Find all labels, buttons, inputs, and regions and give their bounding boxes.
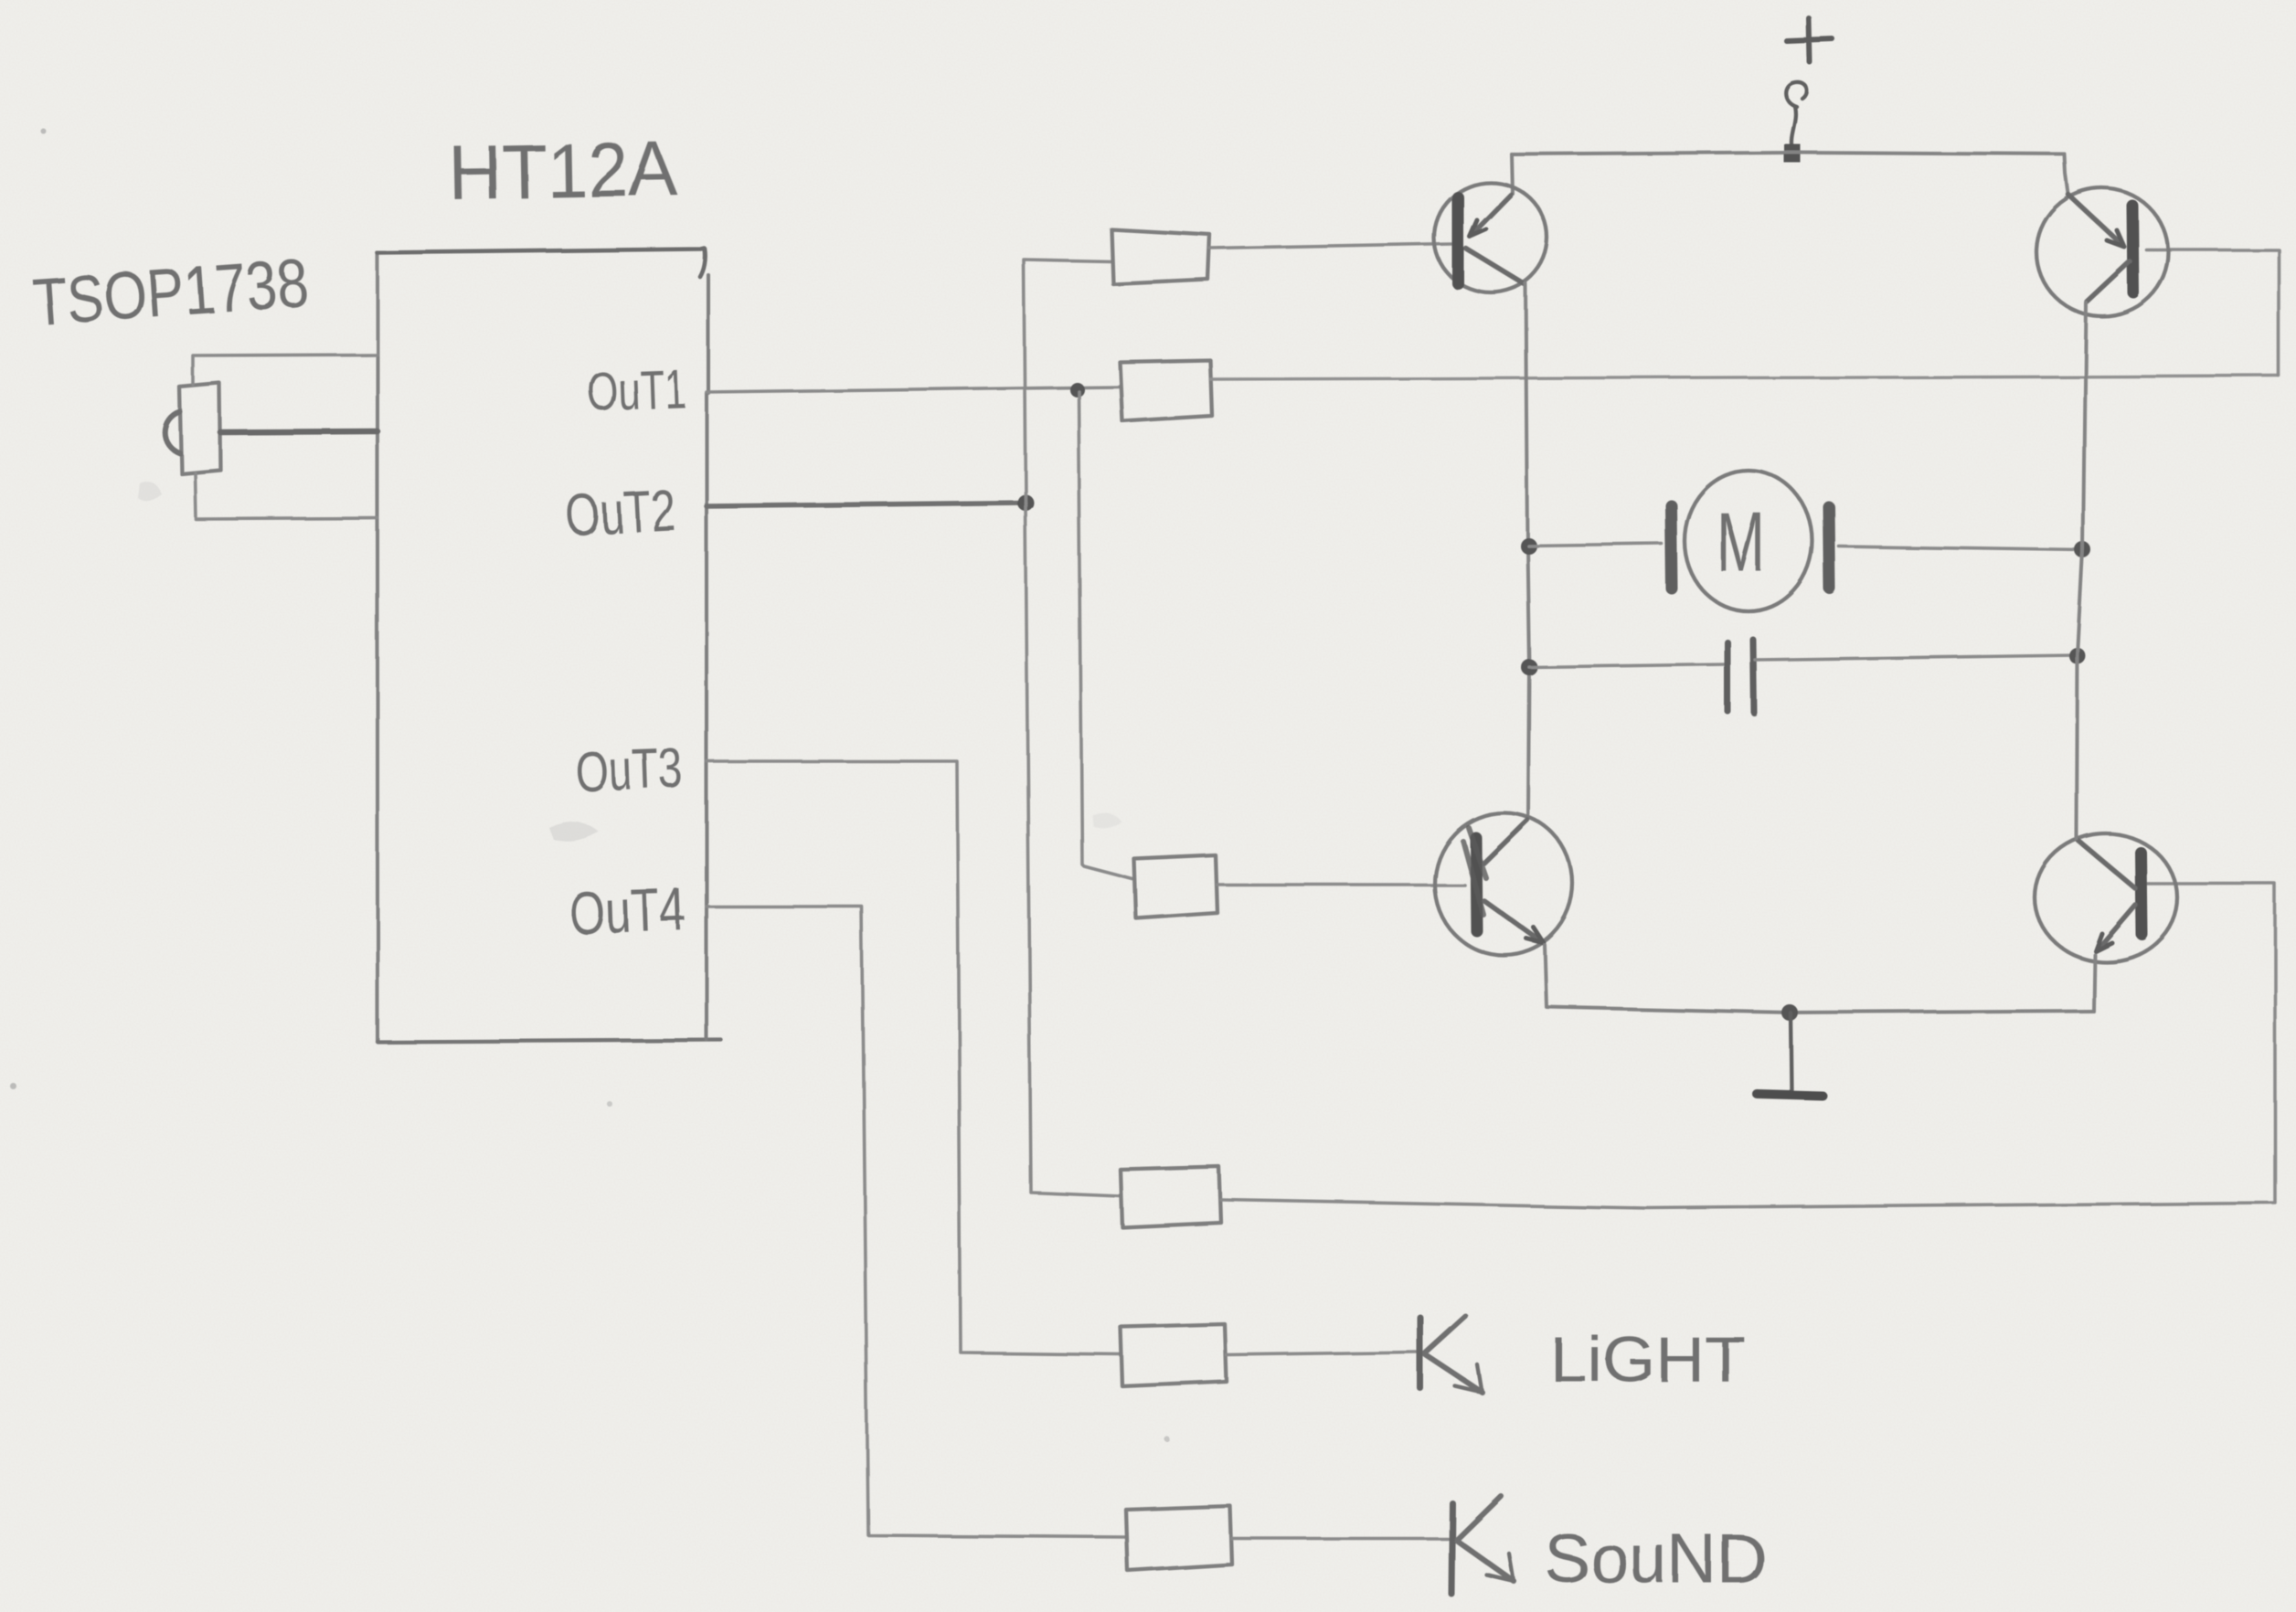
motor M1 left brush <box>1671 505 1672 589</box>
wire TSOP pin2 to U1 (middle) <box>220 431 377 432</box>
node OUT1 tap <box>1069 382 1084 397</box>
wire R4 to Q4 base <box>1221 884 2275 1208</box>
resistor R3 <box>1134 855 1217 918</box>
svg-text:OuT1: OuT1 <box>586 357 686 422</box>
IR receiver dome <box>165 411 179 452</box>
node OUT2 junction <box>1017 494 1034 511</box>
LED D1 cathode bar <box>1418 1318 1424 1388</box>
wire Q3 emitter riser <box>2065 154 2068 194</box>
transistor Q1 body <box>1434 183 1547 292</box>
wire cap left <box>1529 664 1726 667</box>
wire R3 to Q2 base <box>1217 883 1464 886</box>
transistor Q1 base bar <box>1452 197 1464 283</box>
node ground tap <box>1781 1004 1798 1021</box>
transistor Q1 collector diagonal <box>1466 249 1525 284</box>
pencil smudge above R3 <box>1092 812 1122 828</box>
transistor Q3 base bar <box>2132 206 2133 292</box>
paper speck 3 <box>1164 1437 1170 1442</box>
transistor Q2 emitter diagonal <box>1483 900 1541 941</box>
node cap left <box>1521 659 1537 675</box>
wire Q2 emitter drop <box>1545 945 1790 1013</box>
node + rail junction <box>1784 144 1801 163</box>
transistor Q3 emitter arrow <box>2107 230 2124 247</box>
pencil smudge inside IC <box>548 822 599 842</box>
IR receiver U2 TSOP1738 body <box>179 383 220 473</box>
svg-text:M: M <box>1717 496 1766 589</box>
motor M1 right brush <box>1829 507 1830 589</box>
wire R5 to LED1 <box>1227 1352 1417 1355</box>
svg-text:HT12A: HT12A <box>448 126 679 216</box>
wire TSOP pin1 to U1 (top) <box>193 355 377 385</box>
LED D2 arrowhead <box>1486 1554 1514 1581</box>
transistor Q1 emitter diagonal <box>1472 195 1511 235</box>
wire Q4 collector from rail <box>2075 835 2078 839</box>
LED D1 arrowhead <box>1455 1365 1483 1393</box>
svg-text:OuT3: OuT3 <box>574 737 684 804</box>
wire TSOP pin3 to U1 (bottom) <box>195 472 377 519</box>
wire right riser to Q3 base <box>2146 249 2279 376</box>
resistor R5 <box>1121 1324 1227 1386</box>
transistor Q4 emitter arrow <box>2095 933 2111 950</box>
wire OUT1 from U1 to R2 <box>707 387 1120 392</box>
paper speck 4 <box>607 1101 612 1107</box>
node motor left <box>1520 537 1536 554</box>
transistor Q2 collector diagonal <box>1483 820 1527 863</box>
wire OUT2 bus up to R1 <box>1024 260 1111 503</box>
wire OUT1 tap down to R3 <box>1079 391 1132 879</box>
svg-text:OuT4: OuT4 <box>568 875 687 947</box>
transistor Q2 base bar <box>1475 837 1476 930</box>
wire top rail <box>1512 153 2065 154</box>
resistor R6 <box>1126 1506 1232 1571</box>
wire OUT4 from U1 down to R6 <box>707 907 1126 1537</box>
power terminal loop <box>1786 82 1807 107</box>
wire + terminal to rail <box>1791 107 1796 148</box>
capacitor C1 left plate <box>1725 642 1731 711</box>
LED D1 anode legs <box>1426 1317 1466 1353</box>
wire left bridge rail (Q1 collector down to Q2) <box>1525 283 1529 814</box>
svg-text:LiGHT: LiGHT <box>1549 1323 1746 1395</box>
wire Q4 emitter drop <box>2093 954 2094 1011</box>
node motor right <box>2075 542 2091 558</box>
IC U1 HT12A body <box>376 253 379 356</box>
wire bridge bottom rail <box>1790 1011 2093 1013</box>
pencil smudge near TSOP <box>137 481 161 500</box>
svg-text:SouND: SouND <box>1545 1521 1767 1598</box>
transistor Q3 emitter diagonal <box>2068 195 2122 245</box>
motor M1 body <box>1685 471 1812 611</box>
transistor Q3 collector diagonal <box>2087 261 2130 302</box>
resistor R2 <box>1120 360 1212 421</box>
wire right bridge rail (Q3 collector down to Q4) <box>2077 302 2086 835</box>
wire OUT2 bus down to R4 <box>1026 503 1121 1196</box>
node cap right <box>2069 648 2086 664</box>
wire OUT2 from U1 to bus <box>707 503 1026 506</box>
paper speck 2 <box>10 1083 16 1089</box>
transistor Q2 body <box>1434 812 1573 955</box>
transistor Q4 emitter diagonal <box>2098 905 2135 949</box>
power + symbol <box>1787 18 1833 62</box>
transistor Q4 base bar <box>2141 853 2142 934</box>
ground bar <box>1757 1094 1823 1096</box>
LED D2 cathode bar <box>1451 1503 1452 1594</box>
capacitor C1 right plate <box>1753 640 1754 713</box>
ground stem <box>1791 1013 1791 1091</box>
transistor Q4 body <box>2035 833 2177 961</box>
LED D2 anode legs <box>1457 1496 1501 1539</box>
wire OUT1 row from R2 to right edge <box>1210 376 2279 379</box>
resistor R1 <box>1111 229 1210 284</box>
transistor Q4 collector diagonal <box>2078 841 2135 888</box>
svg-text:OuT2: OuT2 <box>564 477 677 548</box>
wire Q1 emitter riser <box>1512 154 1513 194</box>
paper speck 1 <box>39 127 45 133</box>
transistor Q2 base bar overdraw scribble <box>1462 827 1485 914</box>
wire motor left <box>1528 544 1662 546</box>
resistor R4 <box>1121 1167 1221 1227</box>
transistor Q2 emitter arrow <box>1526 928 1544 943</box>
wire R1 to Q1 base <box>1210 244 1451 249</box>
transistor Q1 emitter arrow <box>1470 220 1486 237</box>
wire R6 to LED2 <box>1232 1537 1448 1541</box>
wire cap right <box>1755 655 2078 660</box>
wire motor right <box>1839 546 2083 550</box>
transistor Q3 body <box>2036 188 2168 316</box>
wire OUT3 from U1 down to R5 <box>707 761 1121 1354</box>
